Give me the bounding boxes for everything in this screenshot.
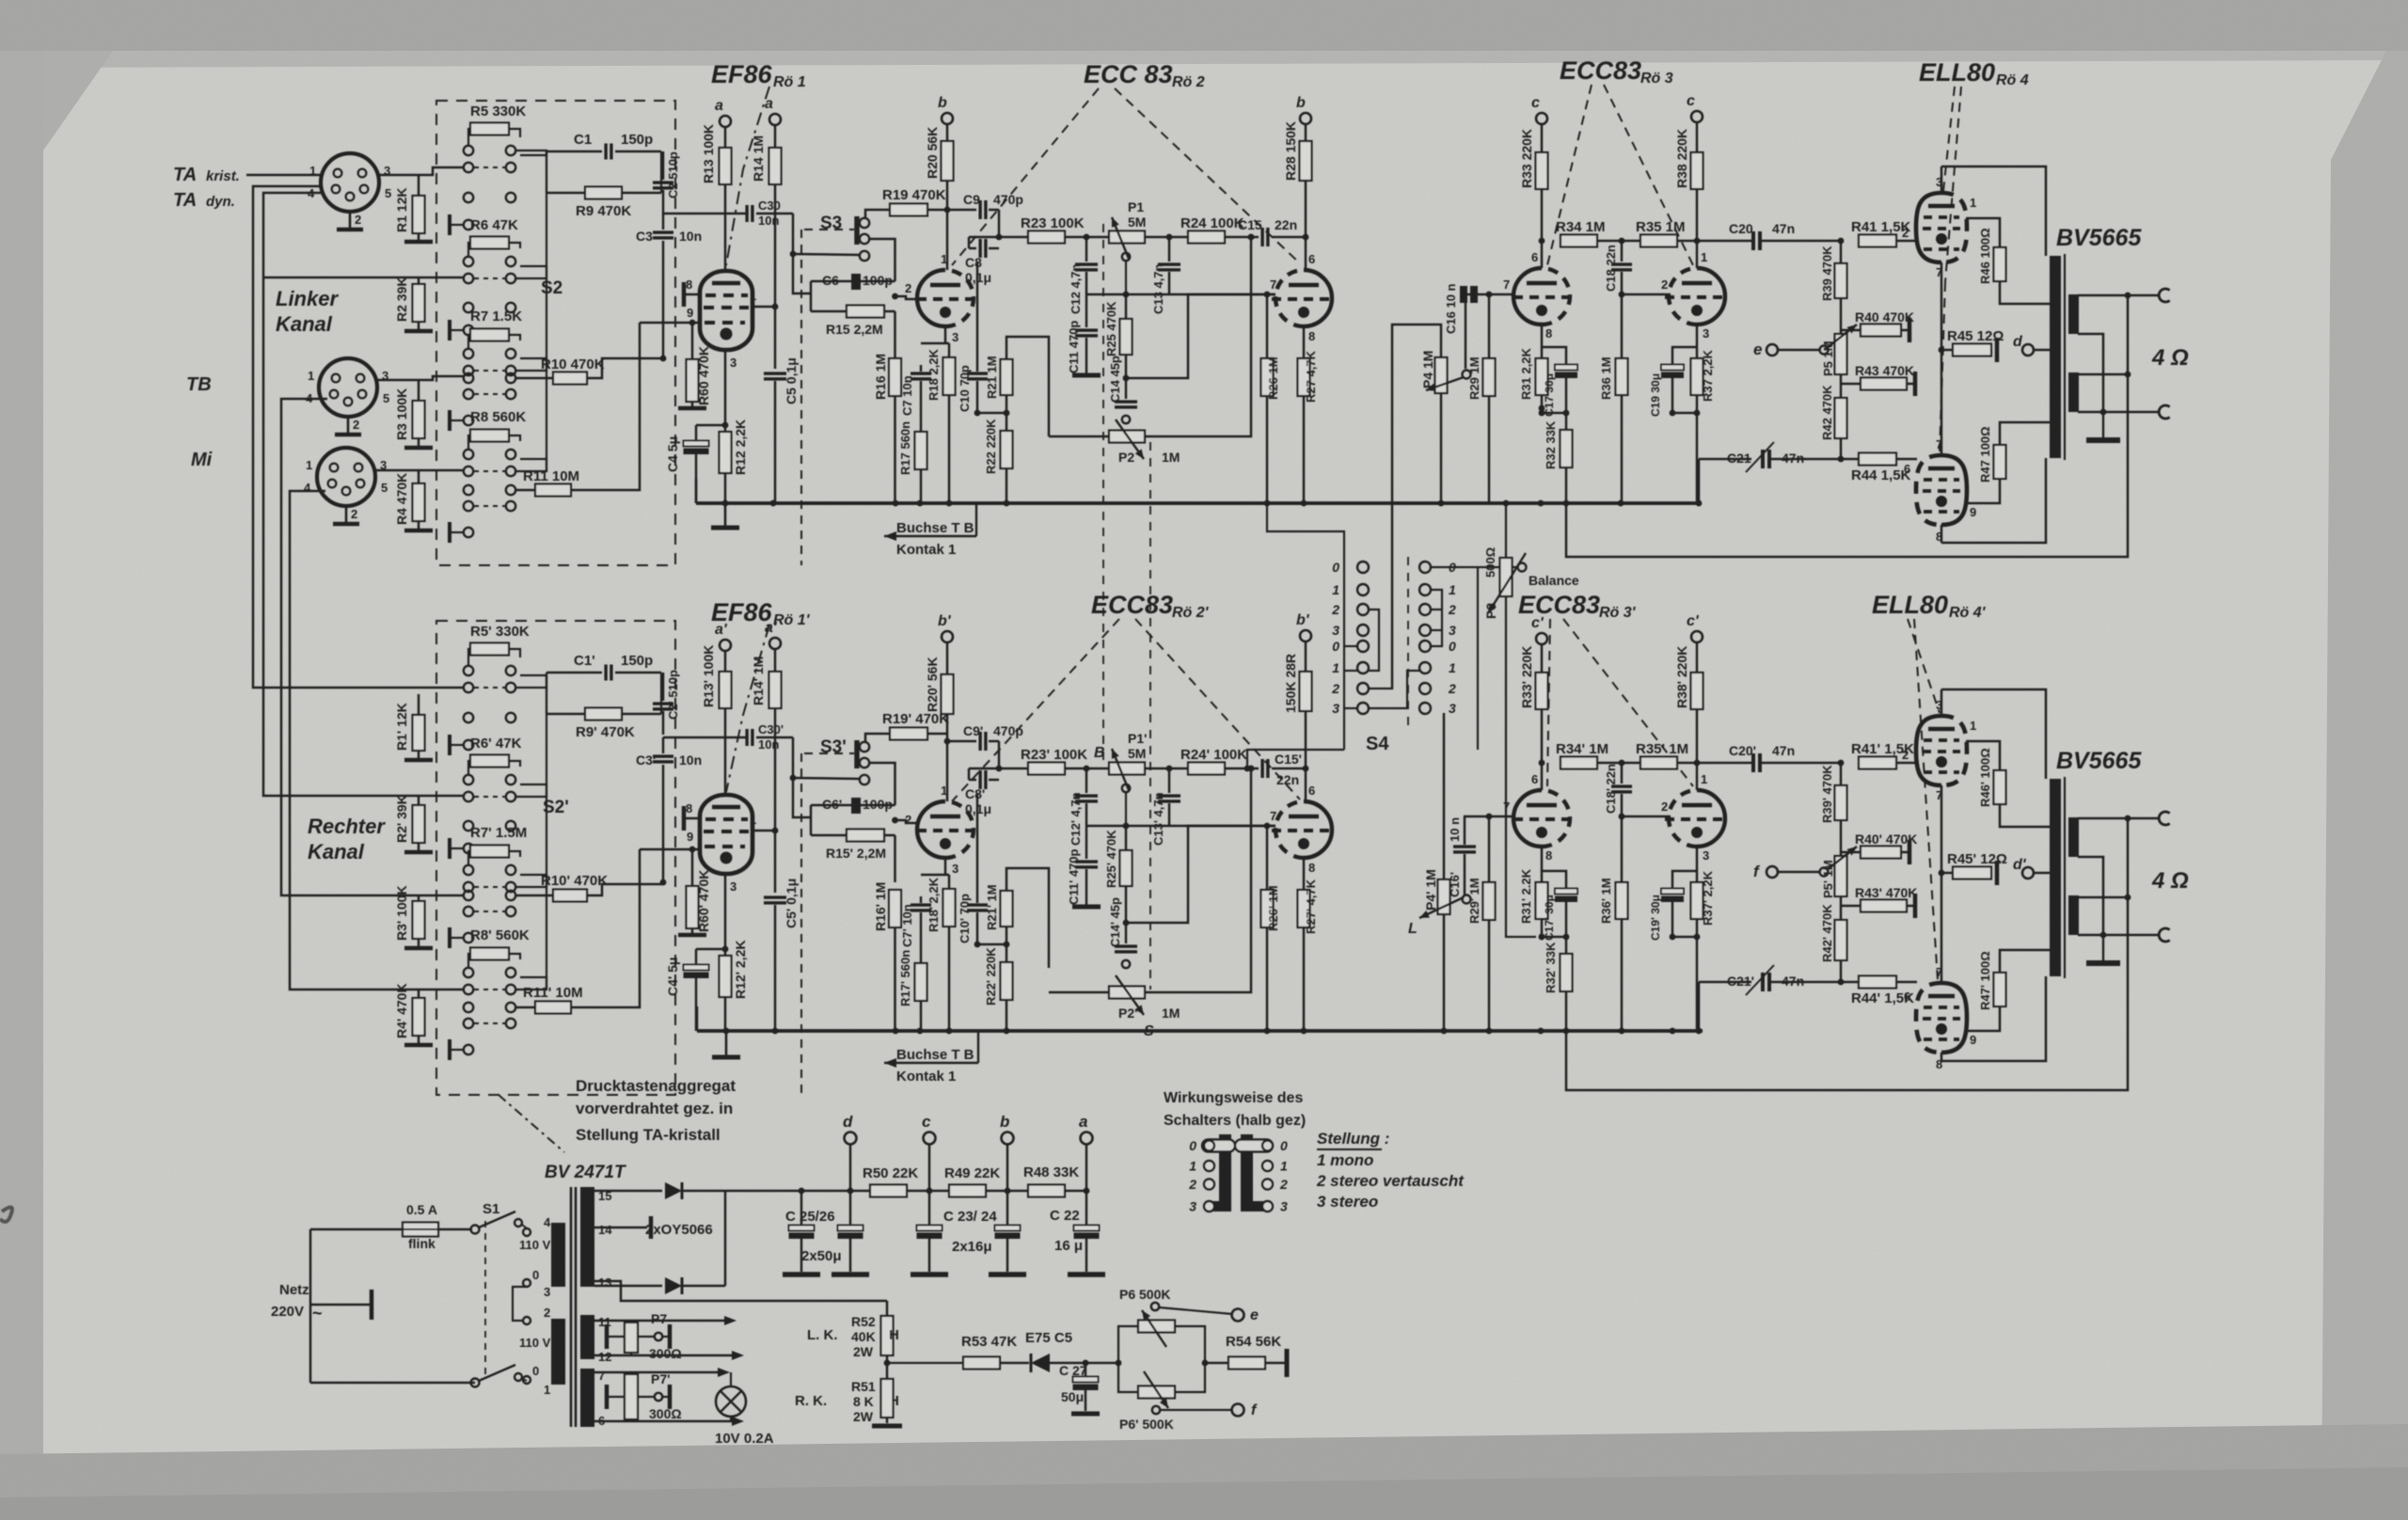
wire Mi down-feed [290,491,464,990]
svg-text:3: 3 [952,330,958,344]
switch S1 lower pole [471,1379,480,1387]
svg-text:6: 6 [1308,784,1315,798]
transformer BV5665 ' core [2064,777,2066,978]
resistor R8 560K [470,430,509,442]
junction R52 R51 [884,1360,891,1367]
grid row triode'a [1464,815,1514,818]
resistor R5 330K [470,123,509,135]
capacitor C8' 0,1u [969,779,976,782]
switch contacts R7' row [468,851,470,865]
svg-text:8: 8 [1308,329,1315,343]
wire grid node to triode [892,293,898,300]
wire junction to triodeb anode [1696,241,1699,268]
svg-text:Linker: Linker [276,287,339,310]
svg-text:C13 4,7n: C13 4,7n [1151,263,1165,314]
svg-text:0: 0 [1332,560,1339,575]
svg-text:TA: TA [173,190,197,211]
wire R28 to grid node [1305,181,1307,270]
svg-text:R1 12K: R1 12K [394,188,409,232]
svg-text:P6 500K: P6 500K [1119,1287,1170,1302]
terminal b' at R20' [942,631,953,642]
resistor R5' 330K [470,643,509,656]
wire S4 feed from bus [1267,503,1344,750]
wire cathode to C7 [944,340,947,343]
resistor R14' 1M [774,649,777,672]
svg-text:R34 1M: R34 1M [1556,219,1606,235]
svg-text:R9 470K: R9 470K [576,203,631,219]
potentiometer P5' 1M [1835,856,1847,896]
resistor R41' 1,5K [1859,757,1896,769]
svg-text:Rö 1: Rö 1 [773,74,806,90]
capacitor C16 10n [1460,286,1478,303]
switch S2' dashed box [436,621,675,1095]
resistor R7' 1.5M [470,846,509,858]
svg-text:R11' 10M: R11' 10M [523,985,583,1001]
svg-text:R4 470K: R4 470K [394,473,409,525]
wire R34 to C18 node [1597,240,1640,243]
resistor R17 560n [915,432,927,469]
capacitor C21 47n [1699,458,1751,461]
svg-text:2: 2 [1331,602,1339,617]
svg-text:10V 0.2A: 10V 0.2A [715,1431,774,1447]
wire pin13 to R52 [594,1281,887,1301]
wire pentode' lower bottom to box [1941,1053,1943,1061]
svg-text:P4 1M: P4 1M [1420,351,1435,388]
svg-text:2: 2 [1902,748,1909,762]
svg-text:R26' 1M: R26' 1M [1266,885,1280,931]
resistor R35 1M [1640,235,1677,247]
wiper arrow P5 [1827,325,1857,348]
svg-text:Stellung TA-kristall: Stellung TA-kristall [576,1126,721,1144]
dash pointer ECC83 Ro2 to triode b [1115,88,1300,263]
svg-text:8: 8 [1545,326,1552,340]
svg-text:3: 3 [1449,623,1456,638]
label Linker Kanal [276,287,339,310]
capacitor C10 70p [976,261,979,372]
resistor R3' 100K [413,901,425,939]
wiper arrow P5' [1827,847,1857,870]
svg-text:a: a [765,96,773,112]
svg-text:Rö 2': Rö 2' [1172,605,1210,621]
svg-text:R36 1M: R36 1M [1599,356,1613,400]
label ECC83 Ro2 [1084,60,1173,88]
svg-text:L. K.: L. K. [807,1327,838,1343]
wire EF86 pin1 [752,306,775,309]
resistor R14 1M [774,125,777,148]
rectifier diode OY5066 upper [594,1190,662,1193]
bracket C6'/R15' [810,805,813,835]
svg-text:R51: R51 [851,1379,876,1394]
resistor R23' 100K [1028,763,1065,775]
switch contacts R6 extra row [464,303,473,312]
wire grid node to triode' [892,817,898,824]
transformer ' secondary upper [2068,817,2079,857]
wire secondary common link [2078,334,2103,412]
switch S3 wiper [854,216,860,245]
svg-text:R26 1M: R26 1M [1266,356,1280,400]
svg-text:C6: C6 [822,273,839,288]
svg-text:R52: R52 [851,1314,876,1329]
svg-text:P2: P2 [1118,450,1134,465]
svg-text:R21 1M: R21 1M [985,356,999,399]
svg-text:d: d [2013,334,2023,350]
svg-text:1: 1 [1970,196,1976,210]
dash leader to Drucktastenaggregat note [499,1095,564,1152]
terminal a' anode supply R14 [769,638,781,649]
pin14 ground stub [594,1227,647,1229]
wire C21' to bus stub [1698,982,1701,1031]
resistor R8' 560K [470,948,509,960]
grid row triodeb [1188,293,1275,296]
wire TA dyn to R2 row [263,277,464,279]
svg-text:22n: 22n [1275,217,1297,232]
svg-text:BV 2471T: BV 2471T [545,1163,626,1182]
wire e to wiper [1778,349,1820,352]
svg-text:150K 28R: 150K 28R [1283,654,1298,713]
resistor R16 1M [889,358,901,396]
capacitor C12 4,7n [1085,237,1088,261]
wire R11' to EF86' grid [571,849,640,1007]
wire TA krist to socket [246,174,321,177]
resistor R10' 470K [516,895,553,897]
resistor R29 1M [1488,294,1491,358]
resistor R46' 100R [1994,770,2006,804]
svg-text:Kanal: Kanal [308,840,365,863]
svg-text:Kanal: Kanal [276,312,333,336]
mech switch contact capsule left [1202,1140,1235,1152]
wiper circle P4' [1463,895,1471,904]
capacitor C18' 22n [1621,763,1624,784]
resistor R9' 470K [547,713,585,716]
svg-text:2: 2 [355,213,361,227]
switch S4 contacts left column [1357,562,1369,573]
connector TB socket [306,358,389,435]
wire pentode' pin1 to R46' [1966,741,2000,770]
svg-text:R31 2,2K: R31 2,2K [1519,347,1533,400]
svg-text:1: 1 [1970,719,1976,733]
svg-text:P2': P2' [1118,1005,1137,1021]
resistor R16' 1M [889,890,901,927]
wire Mi socket pin3 to S2 [376,469,464,472]
svg-text:R13' 100K: R13' 100K [701,645,716,707]
label ELL80 Ro4' [1872,591,1948,619]
tube EF86 Ro1 [700,271,752,350]
terminal e PSU [1232,1309,1244,1322]
svg-text:C19' 30μ: C19' 30μ [1649,895,1662,941]
transformer BV5665 ' primary [2050,779,2061,976]
svg-text:2W: 2W [853,1409,874,1424]
resistor R37' 2,2K [1691,882,1703,919]
capacitor C25/26 2x50u left [799,1188,805,1195]
svg-text:R44' 1,5K: R44' 1,5K [1851,990,1914,1006]
svg-text:P1': P1' [1128,731,1147,746]
svg-text:C20: C20 [1729,221,1753,236]
svg-text:1M: 1M [1162,450,1180,465]
wire junction to triode'b anode [1696,763,1699,790]
svg-text:0: 0 [532,1268,539,1282]
resistor R28' 150K [1305,641,1307,672]
svg-text:EF86: EF86 [711,60,773,88]
resistor R37 2,2K [1691,358,1703,395]
handwritten mark bottom left [0,1207,12,1221]
dash pointer EF86' to tube Ro1' [726,625,769,792]
capacitor C5' 0,1u [774,831,777,893]
wire EF86' cathode [724,874,727,949]
svg-text:Balance: Balance [1529,573,1579,588]
wire R25 to C14 [1125,355,1128,378]
svg-text:1: 1 [1189,1159,1196,1174]
terminal f PSU [1232,1404,1244,1417]
svg-text:Rö 1': Rö 1' [773,612,811,628]
svg-text:C6': C6' [822,797,842,812]
junction row cathodea [1541,395,1544,413]
label TA dyn. [173,190,197,211]
svg-text:S: S [1144,1023,1154,1039]
svg-text:Wirkungsweise des: Wirkungsweise des [1164,1090,1303,1106]
transformer primary taps [523,1228,531,1236]
wire secondary nfb tap [2078,373,2128,376]
dash pointer ELL80' to pentode a' [1908,619,1940,713]
wire R38 to junction [1696,189,1699,241]
svg-text:R29' 1M: R29' 1M [1467,878,1481,924]
resistor R36' 1M [1621,816,1624,882]
svg-text:R11 10M: R11 10M [523,468,579,484]
switch contacts R5 extra row [464,193,473,202]
svg-text:R6' 47K: R6' 47K [470,736,522,752]
svg-text:2: 2 [1279,1177,1288,1192]
grid row triodeb [1622,293,1671,296]
transformer ' secondary lower [2068,895,2079,935]
wire S2' bus vertical [546,675,547,990]
svg-text:R12 2,2K: R12 2,2K [733,420,748,475]
fuse 0,5A flink [403,1223,438,1237]
label 4 Ohm ' [2151,868,2189,894]
switch contacts R5' row [468,649,470,666]
wire R10 to C3 node [587,358,663,378]
wire EF86 grid row [640,322,700,325]
resistor R13 100K [724,127,727,148]
switch S3' contact c [860,775,869,784]
wire junction to triodea [1541,241,1544,268]
terminal bar R40' [1901,851,1908,854]
resistor R7 1.5K [470,329,509,341]
svg-text:vorverdrahtet gez. in: vorverdrahtet gez. in [576,1100,733,1117]
box bottom line ' [1941,976,2046,1061]
svg-text:0: 0 [1449,639,1456,654]
label ECC83 Ro2' [1091,591,1173,619]
box bottom line [1941,458,2046,543]
svg-text:7: 7 [1270,809,1276,823]
resistor R47' 100R [1994,973,2006,1006]
wire fuse to S1 [438,1228,472,1231]
svg-text:R24' 100K: R24' 100K [1180,747,1247,763]
svg-text:2: 2 [1188,1177,1196,1192]
resistor R50 22K [870,1185,907,1197]
svg-text:1: 1 [750,289,756,303]
resistor R39 470K [1835,263,1847,298]
svg-text:TA: TA [173,165,197,185]
wire P2 right [1145,237,1251,436]
resistor R17' 560n [915,963,927,1001]
ground secondary ' [2102,935,2104,961]
potentiometer P5 1M [1835,334,1847,374]
switch contact ground R5' [464,740,473,750]
svg-text:0,1μ: 0,1μ [965,801,991,816]
svg-text:R3 100K: R3 100K [394,388,409,440]
wire node2 to triode' grid [1126,826,1275,923]
svg-text:R27 4,7K: R27 4,7K [1304,350,1318,403]
svg-text:2: 2 [905,813,911,827]
svg-text:d': d' [2013,857,2027,873]
wire secondary ' output lower [2078,934,2158,937]
svg-text:C17' 30μ: C17' 30μ [1543,895,1556,941]
svg-text:1: 1 [1280,1159,1288,1174]
svg-text:Drucktastenaggregat: Drucktastenaggregat [576,1077,736,1095]
wire R46' to transformer [2000,804,2056,827]
svg-text:C8': C8' [965,786,985,801]
wire R47' to transformer [2000,950,2056,973]
wire S3' b to grid node [870,763,895,805]
pilot lamp 10V 0.2A [716,1386,746,1417]
resistor R32 33K [1565,413,1568,430]
note Drucktastenaggregat [576,1077,736,1095]
svg-text:S1: S1 [483,1201,499,1217]
resistor R29' 1M [1488,816,1491,882]
switch S3 contact b [860,234,869,244]
svg-text:1: 1 [308,369,314,383]
svg-text:9: 9 [1970,1033,1976,1047]
svg-text:1: 1 [306,458,312,472]
switch contacts R10' row [464,891,473,900]
switch S4 contacts right column [1419,562,1431,573]
svg-text:3: 3 [730,356,737,370]
svg-text:C9': C9' [963,723,983,738]
label S2 [541,278,562,298]
svg-text:R10 470K: R10 470K [541,356,605,372]
wire secondary output upper [2078,294,2158,297]
svg-text:0.5 A: 0.5 A [406,1202,437,1217]
potentiometer P4' 1M [1438,879,1450,914]
B+ rail [752,1190,870,1193]
svg-text:Kontak 1: Kontak 1 [896,542,956,558]
svg-text:2: 2 [351,507,357,521]
resistor R12 2,2K [724,425,727,432]
switch S1 dashed link [484,1221,486,1375]
resistor R18' 2,2K [948,875,951,889]
resistor R33' 220K [1541,644,1544,673]
triode ECC83 Ro2'b [1272,801,1332,858]
dash-dot pointer EF86 to tube Ro1 [726,87,769,265]
wiper circle P1' [1122,784,1130,792]
wire S3' c to C2' node [793,778,860,779]
svg-text:47n: 47n [1772,743,1795,758]
svg-text:R39 470K: R39 470K [1820,245,1834,301]
switch contacts R5 row [468,129,470,146]
wire R39' to P5' [1840,820,1843,856]
wire R21' top link [1006,868,1049,968]
wire P2' right [1145,768,1251,992]
svg-text:C9: C9 [963,192,980,207]
resistor R40 470K [1841,329,1861,332]
gang dashed line P1-P1' [1102,224,1104,766]
svg-text:R25' 470K: R25' 470K [1104,830,1118,888]
wire TA dyn down-feed [263,193,464,796]
svg-text:a: a [715,98,723,114]
svg-text:H: H [889,1327,899,1343]
resistor R9 470K [547,192,585,195]
svg-text:R6 47K: R6 47K [470,217,518,233]
triode ECC83 Ro2a [917,270,977,326]
svg-text:2: 2 [1331,681,1339,696]
svg-text:110 V: 110 V [519,1238,551,1252]
transformer secondary upper [2068,294,2079,334]
svg-text:C14 45p: C14 45p [1108,356,1122,403]
svg-text:R39' 470K: R39' 470K [1820,765,1834,823]
wire bus' to C4' column [696,1006,699,1031]
switch contacts R10 row [464,373,473,383]
label R.K. H [795,1393,827,1409]
resistor R42 470K [1840,374,1843,398]
svg-text:1: 1 [544,1383,550,1397]
svg-text:R23 100K: R23 100K [1021,215,1085,231]
dash pointer ECC83 Ro2' to triode b' [1135,619,1300,800]
wire P2' left [1049,991,1109,994]
capacitor C4' 5u [696,948,725,951]
svg-text:100p: 100p [863,273,893,288]
svg-text:C12' 4,7n: C12' 4,7n [1069,792,1083,846]
capacitor C18 22n [1621,241,1624,261]
wire R19' to anode node [927,733,947,736]
wire S1 to taps [522,1225,527,1228]
svg-text:R23' 100K: R23' 100K [1021,747,1087,763]
resistor R26 1M [1266,294,1269,358]
terminal c at R33 [1536,113,1547,124]
svg-text:R32 33K: R32 33K [1544,420,1558,469]
ground symbol top bus [724,503,727,526]
wire S4 feed from b' node [1247,750,1344,768]
resistor R21' 1M [1001,891,1013,926]
svg-text:R46' 100Ω: R46' 100Ω [1978,748,1992,807]
svg-text:flink: flink [408,1236,436,1251]
svg-text:ELL80: ELL80 [1872,591,1948,619]
wire R38' to junction [1696,709,1699,763]
wire d' to transformer [2034,872,2056,875]
svg-text:b': b' [938,613,952,629]
resistor R23 100K [1028,231,1065,244]
junction cathodeb [1696,395,1699,413]
svg-text:S4: S4 [1366,734,1389,754]
feedback line top channel [1566,295,2128,557]
wire R13' to anode [724,708,727,795]
resistor R42' 470K [1840,896,1843,920]
svg-text:R53 47K: R53 47K [961,1334,1017,1350]
svg-text:c': c' [1531,615,1545,631]
wire tap link [513,1287,527,1321]
svg-text:10n: 10n [679,229,702,244]
svg-text:R42 470K: R42 470K [1820,385,1834,440]
label 2xOY5066 [645,1222,713,1238]
svg-text:16 μ: 16 μ [1054,1238,1083,1254]
terminal f [1766,866,1778,878]
potentiometer P2' 1M [1109,987,1145,999]
switch contacts R6' row [468,761,470,775]
wire TA socket pin3 to S2 [379,167,464,175]
transformer BV5665 primary [2050,256,2061,458]
svg-text:8 K: 8 K [853,1394,874,1409]
wire triodea cathode [944,326,947,340]
wire R52/R51 to R53 [887,1362,963,1364]
svg-text:Kontak 1: Kontak 1 [896,1069,956,1085]
